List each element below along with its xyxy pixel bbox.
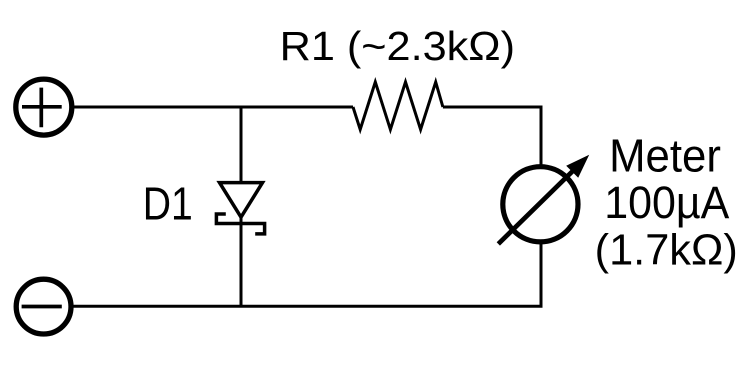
resistor R1 <box>353 82 443 130</box>
svg-text:R1 (~2.3kΩ): R1 (~2.3kΩ) <box>280 23 515 68</box>
wire top right: resistor to meter top corner <box>443 107 541 165</box>
svg-text:Meter: Meter <box>609 130 721 182</box>
svg-text:(1.7kΩ): (1.7kΩ) <box>595 226 738 274</box>
wire diode top stub <box>240 107 243 183</box>
meter M1 (100µA movement) <box>498 155 589 244</box>
terminal - (negative supply) <box>16 279 71 334</box>
wire diode bottom stub <box>240 218 243 306</box>
diode D1 (zener) <box>216 183 264 234</box>
svg-text:100µA: 100µA <box>604 178 730 228</box>
wire bottom: meter bottom to - terminal <box>72 244 541 306</box>
svg-text:D1: D1 <box>143 179 193 231</box>
wire top: + terminal to resistor <box>73 106 354 109</box>
terminal + (positive supply) <box>16 79 72 135</box>
